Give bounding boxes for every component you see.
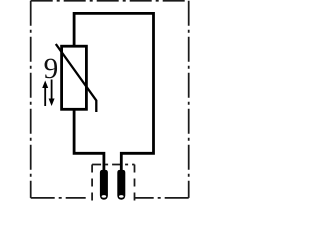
connector pin 1 (left terminal) [100, 170, 108, 200]
sensor housing boundary left edge [30, 1, 32, 198]
sensor housing boundary bottom-left segment [31, 197, 92, 199]
sensor housing boundary (dash-dot enclosure) top edge [31, 0, 189, 2]
connector housing right edge [134, 165, 136, 202]
connector housing left edge [91, 165, 93, 202]
temperature symbol theta (serif figure) [45, 59, 58, 79]
wire: thermistor bottom down and right to left pin [74, 108, 104, 172]
variability arrow up (shaft) [44, 85, 46, 106]
connector pin 1 socket opening [102, 195, 107, 198]
thermistor body rectangle [62, 46, 87, 109]
variability arrow up (head) [42, 81, 48, 89]
wire: thermistor top, loop top and right side down to right pin [74, 13, 153, 172]
connector pin 2 socket opening [119, 195, 124, 198]
sensor housing boundary right edge [188, 1, 190, 198]
thermistor diagonal stroke with bent tail [56, 44, 97, 112]
connector housing (dashed box) top edge [92, 164, 134, 166]
sensor housing boundary bottom-right segment [135, 197, 189, 199]
variability arrow down (head) [49, 99, 55, 107]
connector pin 2 (right terminal) [117, 170, 125, 200]
variability arrow down (shaft) [51, 80, 53, 101]
